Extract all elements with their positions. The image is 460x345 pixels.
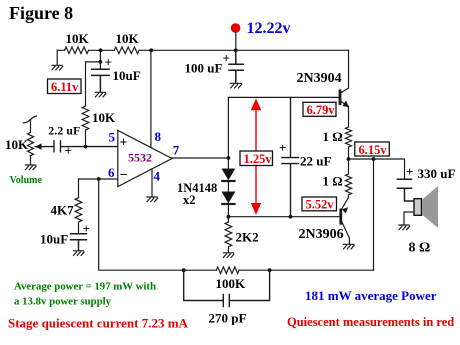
svg-text:7: 7 [173, 143, 180, 158]
capacitor C2 10uF [92, 69, 109, 92]
svg-text:+: + [223, 51, 230, 66]
svg-text:10K: 10K [66, 31, 90, 46]
svg-text:4: 4 [154, 169, 161, 184]
wire pin 8 to rail [150, 50, 152, 147]
node junction feedback tap [372, 157, 376, 161]
node junction rail supply [234, 48, 238, 52]
svg-text:x2: x2 [183, 193, 196, 207]
svg-text:6.11v: 6.11v [51, 80, 79, 94]
svg-text:100K: 100K [216, 276, 247, 291]
resistor R2 10K (top second) [114, 47, 139, 54]
svg-text:5.52v: 5.52v [306, 198, 335, 212]
diode D2 1N4148 [222, 192, 234, 202]
svg-text:8 Ω: 8 Ω [409, 241, 431, 256]
capacitor C1 100uF [229, 50, 243, 83]
svg-text:+: + [406, 164, 413, 179]
wire pin 6 [79, 178, 118, 180]
ground G9 (C4) [74, 251, 85, 256]
resistor R6 1 ohm (bottom) [346, 159, 352, 198]
ground G8 (2K2) [223, 253, 234, 258]
diode D1 1N4148 [222, 169, 234, 179]
capacitor C7 270pF branch [184, 270, 270, 306]
wire feedback vertical [373, 159, 375, 270]
node junction rail-R1R2 [99, 48, 103, 52]
svg-text:2.2 uF: 2.2 uF [48, 124, 80, 138]
node junction C5 bottom [289, 215, 293, 219]
voltage box 1.25v [240, 151, 273, 166]
potentiometer VR1 10K [23, 116, 41, 165]
svg-text:6: 6 [108, 165, 115, 180]
svg-text:100 uF: 100 uF [185, 61, 223, 76]
measurement arrow 1.25v (red) [251, 98, 261, 214]
wire junction drop to 10uF node [99, 50, 101, 68]
svg-text:4K7: 4K7 [51, 203, 75, 218]
svg-text:270 pF: 270 pF [209, 311, 247, 326]
wire diode chain bottom [227, 205, 229, 217]
ground G7 (Q2 collector) [344, 244, 355, 249]
svg-text:+: + [83, 221, 90, 236]
capacitor C4 10uF (bottom) [71, 234, 87, 251]
svg-text:10uF: 10uF [113, 68, 141, 83]
svg-text:+: + [65, 143, 72, 158]
node junction pin6/feedback [97, 177, 101, 181]
resistor R3 10K (vertical) [82, 62, 89, 147]
node junction pin5/R3 [84, 145, 88, 149]
svg-text:−: − [120, 168, 128, 183]
node junction rail pin8 tap [149, 48, 153, 52]
svg-text:2N3904: 2N3904 [297, 71, 342, 86]
svg-text:8: 8 [155, 129, 162, 144]
resistor R1 10K (top left) [65, 47, 89, 54]
svg-text:10K: 10K [116, 31, 140, 46]
ground G6 (speaker) [399, 225, 410, 230]
svg-text:1 Ω: 1 Ω [323, 129, 343, 144]
wire feedback bottom rail [99, 179, 374, 270]
node junction 10uF tap [99, 60, 103, 64]
svg-text:2N3906: 2N3906 [299, 227, 344, 242]
speaker LS1 [404, 186, 438, 228]
svg-text:1 Ω: 1 Ω [323, 174, 343, 189]
ground G3 (C2) [95, 92, 106, 97]
node junction 270pF left [182, 268, 186, 272]
resistor R4 4K7 [75, 179, 82, 233]
svg-text:330 uF: 330 uF [418, 166, 456, 181]
resistor R7 2K2 [225, 217, 232, 253]
svg-text:10K: 10K [92, 110, 116, 125]
ground G1 (rail left) [52, 65, 63, 70]
transistor Q1 2N3904 [340, 50, 349, 127]
wire supply dot stem [235, 33, 237, 51]
wire pin 4 to ground [151, 169, 153, 197]
op-amp U1 5532 triangle [118, 130, 172, 186]
svg-text:5: 5 [109, 130, 116, 145]
svg-text:22 uF: 22 uF [300, 154, 331, 169]
resistor R8 100K [216, 267, 239, 274]
capacitor C5 22uF [282, 97, 299, 216]
transistor Q2 2N3906 [341, 198, 350, 245]
svg-text:2K2: 2K2 [236, 230, 259, 245]
svg-text:1.25v: 1.25v [244, 152, 273, 166]
voltage box 6.11v [48, 79, 82, 94]
power supply red dot [231, 24, 240, 33]
capacitor C3 2.2uF [42, 141, 118, 152]
svg-text:181 mW average Power: 181 mW average Power [305, 288, 437, 303]
svg-text:6.15v: 6.15v [359, 143, 388, 157]
svg-text:6.79v: 6.79v [307, 103, 336, 117]
svg-text:Stage quiescent current 7.23 m: Stage quiescent current 7.23 mA [8, 315, 189, 330]
node junction diode bottom/2K2 [227, 215, 231, 219]
wire left end drop to ground [56, 50, 58, 65]
svg-text:12.22v: 12.22v [247, 20, 291, 37]
wire upper base rail [228, 96, 339, 98]
voltage box 5.52v [302, 197, 337, 212]
svg-text:5532: 5532 [128, 151, 152, 165]
svg-text:Figure 8: Figure 8 [9, 3, 73, 23]
wire between diodes [227, 182, 229, 192]
svg-text:Average power = 197 mW with: Average power = 197 mW with [14, 280, 156, 292]
voltage box 6.15v [355, 142, 390, 157]
wire top rail left segment [57, 49, 348, 51]
svg-text:Quiescent measurements in red: Quiescent measurements in red [287, 315, 454, 329]
node junction output/diodes [227, 156, 231, 160]
wire diode chain top [227, 97, 229, 169]
svg-text:a 13.8v power supply: a 13.8v power supply [14, 296, 112, 308]
svg-text:+: + [279, 140, 286, 155]
node junction 270pF right [268, 268, 272, 272]
node junction output node [347, 157, 351, 161]
wire lower base rail [228, 216, 339, 218]
ground G5 (pin 4) [147, 197, 158, 202]
svg-text:+: + [120, 136, 128, 151]
svg-text:Volume: Volume [10, 175, 43, 186]
wire stub to 10K vertical [86, 61, 101, 63]
ground G4 (VR1) [26, 165, 37, 170]
wire op-amp output [172, 157, 228, 159]
svg-text:10K: 10K [5, 137, 29, 152]
resistor R5 1 ohm (top) [346, 127, 352, 159]
ground G2 (C1) [230, 83, 241, 88]
capacitor C6 330uF [397, 179, 414, 201]
svg-text:+: + [105, 55, 112, 70]
voltage box 6.79v [303, 102, 336, 117]
svg-text:10uF: 10uF [40, 232, 68, 247]
wire output to speaker [349, 159, 405, 179]
